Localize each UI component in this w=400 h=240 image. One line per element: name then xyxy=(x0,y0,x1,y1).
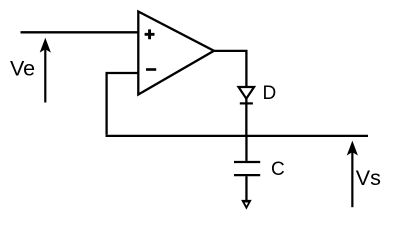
svg-text:C: C xyxy=(271,159,285,180)
svg-text:Vs: Vs xyxy=(356,166,381,190)
svg-text:D: D xyxy=(263,83,277,104)
svg-text:Ve: Ve xyxy=(10,56,35,80)
